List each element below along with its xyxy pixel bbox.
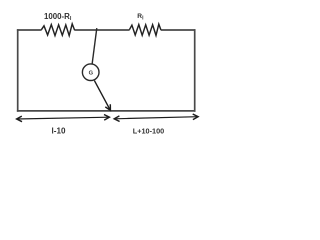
svg-text:G: G [89,71,94,77]
wire: left vertical side of bridge loop [17,29,19,112]
wire: top middle segment between resistors [74,29,129,31]
wire: right vertical side of bridge loop [194,29,196,112]
galvanometer G [82,64,99,81]
wire: top right lead [161,29,196,31]
svg-text:1000-Rl: 1000-Rl [44,12,72,22]
wire from top node to galvanometer [92,28,97,64]
resistor R1 (right zigzag) [129,24,161,35]
jockey arrow from galvanometer to slide wire [94,81,110,111]
svg-text:L+10-100: L+10-100 [133,127,164,136]
wire: bottom slide wire of bridge loop [17,110,196,112]
svg-text:l-10: l-10 [52,127,66,136]
resistor 1000-Rl (left zigzag) [41,24,74,36]
dimension arrow L+10-100 (right span) [114,117,198,119]
wire: top left lead [17,29,42,31]
dimension arrow l-10 (left span) [17,117,110,119]
